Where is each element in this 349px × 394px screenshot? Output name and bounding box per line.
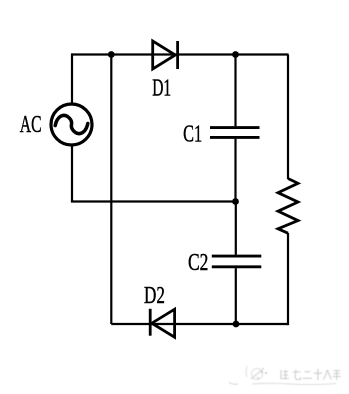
wire C1 bottom vertical: [234, 139, 236, 202]
wire top horizontal: [72, 53, 289, 55]
wire AC top vertical: [71, 53, 73, 105]
wire left vertical: [110, 55, 112, 325]
wire right vertical bottom: [287, 233, 289, 325]
watermark icon: [246, 366, 267, 380]
node top-left junction: [108, 51, 115, 58]
watermark text: [281, 369, 341, 380]
label AC: [20, 111, 42, 138]
label C2: [188, 249, 208, 276]
wire C2 top vertical: [235, 202, 237, 255]
wire C1 top vertical: [234, 55, 236, 127]
svg-text:C1: C1: [183, 121, 202, 148]
node top-right junction: [232, 51, 239, 58]
diode D1: [153, 41, 178, 69]
node middle junction: [232, 198, 239, 205]
svg-text:D2: D2: [144, 282, 165, 309]
ac source AC: [51, 104, 92, 145]
label C1: [183, 121, 202, 148]
resistor R: [278, 179, 298, 234]
wire right vertical top: [287, 55, 289, 180]
watermark underline: [229, 382, 336, 385]
wire bottom horizontal: [111, 323, 288, 325]
capacitor C1: [210, 128, 260, 138]
wire C2 bottom vertical: [235, 268, 237, 324]
node bottom junction: [233, 321, 240, 328]
wire middle horizontal: [71, 200, 236, 202]
label D1: [152, 75, 171, 102]
svg-text:C2: C2: [188, 249, 208, 276]
diode D2: [150, 309, 174, 337]
capacitor C2: [212, 256, 261, 267]
wire AC bottom vertical: [71, 144, 73, 202]
svg-text:D1: D1: [152, 75, 171, 102]
svg-text:AC: AC: [20, 111, 42, 138]
label D2: [144, 282, 165, 309]
